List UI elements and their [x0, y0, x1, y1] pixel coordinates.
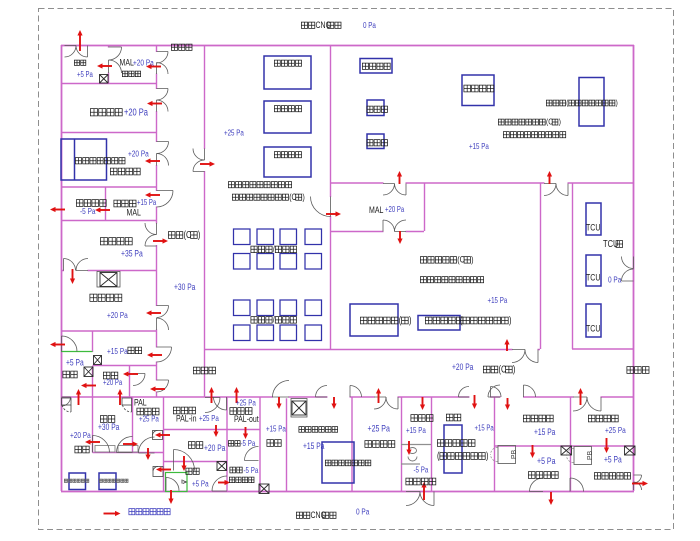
storage tank r253.5 c233.5	[234, 254, 251, 270]
wire TCU left wall	[572, 183, 574, 349]
svg-text:+20 Pa: +20 Pa	[107, 310, 128, 320]
arrow chromatography door up	[547, 171, 552, 184]
weighing hood divider	[74, 139, 76, 180]
svg-text:): )	[303, 192, 306, 202]
label TCU 2	[586, 273, 600, 283]
label outer CNC corridor top	[301, 20, 341, 30]
door chromatography right	[556, 184, 568, 196]
arrow yigeng2 exit down	[168, 490, 173, 504]
label raw product out	[594, 473, 630, 480]
label waste2	[411, 415, 433, 422]
door MAL bottom left	[383, 220, 395, 232]
label ergeng2	[188, 442, 202, 449]
label waste out -5Pa	[80, 206, 96, 216]
label waiqing +5Pa	[537, 456, 556, 466]
pass box tuogeng bottom	[259, 484, 269, 494]
wire TCU bottom	[572, 348, 634, 350]
wire corridor top	[204, 349, 540, 351]
label tuigeng -5Pa	[244, 465, 260, 475]
svg-text:+25 Pa: +25 Pa	[236, 397, 257, 407]
pass box yigeng	[84, 367, 93, 377]
label PAL +25Pa	[139, 413, 160, 423]
arrow corridor to weighing	[145, 158, 160, 163]
label fuya-geliqi2	[437, 440, 475, 447]
label waste2 +15Pa	[406, 425, 427, 435]
equipment negative-pressure open weighing hood	[61, 139, 107, 180]
svg-text:-5 Pa: -5 Pa	[244, 465, 260, 475]
equipment chromatography system	[360, 59, 392, 74]
door corridor-staging2 left	[488, 385, 500, 397]
door jieju corridor	[157, 347, 172, 362]
storage tank r229 c257	[257, 229, 274, 245]
door utensil wash upper	[157, 306, 169, 318]
svg-text:): )	[616, 98, 619, 108]
pass box buffer/MAL	[100, 75, 109, 84]
wire feiqiwu/chengliang divider	[431, 397, 433, 491]
wire zhengyi right wall	[132, 397, 134, 453]
svg-text:+25 Pa: +25 Pa	[368, 424, 391, 434]
storage tank r300 c280	[280, 300, 297, 316]
pass box material out	[561, 446, 572, 455]
label xiyi +20Pa	[70, 430, 91, 440]
arrow corridor to ergeng vest	[150, 386, 165, 391]
arrow corridor up 1	[209, 387, 214, 403]
wire cunfang/feiqiwu divider	[401, 397, 403, 491]
label utensil storage	[100, 238, 132, 245]
label yigeng2	[186, 468, 199, 474]
wire building top	[61, 45, 634, 47]
label waste MAL	[127, 208, 142, 218]
svg-text:+15 Pa: +15 Pa	[137, 199, 156, 207]
door utensil storage upper	[145, 223, 157, 235]
equipment liquid-prep system 1	[264, 56, 311, 89]
storage tank r325 c257	[257, 325, 274, 341]
door TCU room upper	[622, 257, 634, 269]
door corridor-weighing upper	[157, 142, 169, 154]
label corridor C upper	[168, 229, 200, 240]
svg-text:(: (	[460, 314, 463, 325]
svg-text:(: (	[437, 450, 440, 461]
label utensil storage2	[365, 441, 395, 448]
svg-text:PAL-out: PAL-out	[234, 414, 259, 424]
label peiye system 1	[274, 60, 301, 66]
door corridor-weighing lower	[157, 154, 169, 166]
hatch yigeng2-xiyi	[153, 466, 163, 476]
svg-text:0 Pa: 0 Pa	[608, 275, 622, 285]
wire chromatography bottom	[330, 182, 634, 184]
svg-text:+15 Pa: +15 Pa	[475, 425, 494, 433]
label jinlin -5Pa	[241, 438, 257, 448]
wire chengliang/zancun divider	[494, 397, 496, 491]
arrow utensil storage to corridor	[153, 238, 168, 243]
storage tank r325 c233.5	[234, 325, 251, 341]
svg-text:+15 Pa: +15 Pa	[303, 441, 325, 451]
arrow raw product out	[632, 481, 648, 486]
door corridor-peiye upper	[193, 149, 205, 161]
wire jinlin right wall	[259, 397, 261, 491]
label washer tiny 1	[64, 479, 88, 482]
svg-text:): )	[559, 117, 562, 127]
svg-text:+20 Pa: +20 Pa	[128, 149, 149, 159]
door jinlin	[245, 447, 259, 461]
arrow yigeng2 hatch left	[156, 467, 171, 472]
svg-text:PB: PB	[511, 450, 518, 460]
label sterilizer room	[299, 427, 338, 433]
hatch ergeng small door	[122, 398, 132, 412]
label material staging	[90, 109, 122, 116]
label fuya-geliqi	[425, 317, 463, 324]
label zhengyi +30Pa	[98, 422, 120, 432]
svg-text:+5 Pa: +5 Pa	[66, 358, 84, 368]
storage tank r300 c233.5	[234, 300, 251, 316]
svg-text:+5 Pa: +5 Pa	[192, 479, 209, 489]
door corridor-rawliquid left	[573, 397, 587, 411]
wire below utensil storage	[61, 270, 156, 272]
wire building right	[633, 45, 635, 491]
label xiaofenzi-chengliang	[437, 450, 489, 461]
label MAL2 +20Pa	[385, 206, 404, 214]
door utensil storage-wash left	[64, 259, 76, 271]
svg-text:+5 Pa: +5 Pa	[604, 455, 622, 465]
wire peiye/cengxi divider	[330, 45, 332, 349]
label waste	[114, 200, 136, 207]
label toxic risk 2	[420, 277, 483, 283]
label washer tiny 2	[99, 479, 128, 482]
svg-text:(: (	[566, 98, 569, 108]
label MAL1 +20Pa	[133, 58, 154, 68]
arrow yigeng arrow	[81, 383, 96, 388]
door coupling room right	[525, 350, 538, 363]
wire zancun/yuanye divider	[570, 397, 572, 491]
door utensil wash lower	[157, 318, 169, 330]
label sterilizer +15Pa	[303, 441, 325, 451]
door gaps	[155, 52, 158, 74]
green door leaf mark	[182, 480, 186, 484]
label zhengyi	[100, 416, 114, 423]
wire zhengyi left wall	[92, 397, 94, 453]
equipment double-door sterilizer	[322, 442, 354, 483]
svg-text:MAL: MAL	[369, 205, 384, 215]
arrow corridor to sterilizer	[331, 397, 336, 409]
label outer CNC corridor bottom	[296, 510, 336, 520]
wire qingxi/cunfang divider	[351, 397, 353, 491]
svg-text:+30 Pa: +30 Pa	[174, 282, 196, 292]
wire yuanye divider	[570, 445, 634, 447]
arrow ergeng up	[117, 389, 122, 405]
label coupling room	[420, 254, 473, 265]
svg-text:+15 Pa: +15 Pa	[406, 425, 427, 435]
wire green door line	[61, 351, 93, 353]
svg-text:(C: (C	[499, 363, 507, 374]
label jinlin	[228, 441, 240, 447]
PB pass box material clean	[491, 446, 519, 464]
label waste2 out	[406, 478, 436, 485]
label corridor C lower	[483, 363, 515, 374]
arrow corridor to staging2	[505, 398, 510, 410]
arrow corridor up 2	[234, 387, 239, 403]
door corridor-peiye lower	[193, 160, 205, 172]
door coupling room left	[512, 350, 525, 363]
door corridor-staging upper	[157, 89, 169, 101]
label tuiqisuo +25Pa	[236, 397, 257, 407]
label waste out	[76, 200, 106, 207]
arrow staging to waiqing	[530, 445, 535, 458]
label peiye system 2	[274, 106, 301, 112]
equipment chromatography column 2	[367, 134, 384, 149]
equipment negative pressure isolator (weighing)	[444, 425, 462, 473]
pass box jieju upper	[94, 356, 102, 365]
svg-text:PB: PB	[587, 451, 594, 461]
door MAL top right	[395, 184, 407, 196]
svg-text:): )	[513, 363, 516, 374]
wire below waste row	[61, 220, 156, 222]
wire above yigeng2	[163, 461, 227, 463]
wire building left	[61, 45, 63, 491]
door laundry corner	[62, 397, 71, 406]
label material weighing	[110, 168, 140, 175]
arrow waste2 inner arrow	[406, 441, 411, 455]
label xiaofenzi-rongjie	[460, 314, 512, 325]
equipment TCU 1	[586, 203, 601, 235]
equipment coupling reactor	[350, 304, 398, 336]
storage tank r253.5 c280	[280, 254, 297, 270]
door waste-out bottom right	[420, 492, 434, 506]
arrow rawliquid up	[578, 388, 583, 405]
label waste +15Pa	[137, 199, 156, 207]
PB pass box raw liquid	[567, 447, 595, 465]
arrow PAL down	[145, 448, 150, 460]
wire below weighing	[61, 186, 156, 188]
label chromatography system	[362, 63, 390, 69]
label ergeng	[103, 372, 117, 379]
storage tank r229 c305	[305, 229, 322, 245]
arrow waste inner arrow	[95, 207, 110, 212]
door corridor-sterilizer room left	[316, 386, 328, 398]
svg-text:+20 Pa: +20 Pa	[204, 443, 226, 453]
arrow corridor to waste2	[420, 397, 425, 410]
svg-text:-5 Pa: -5 Pa	[414, 464, 430, 474]
door PAL-yigeng	[139, 437, 155, 453]
label waste2 -5Pa	[414, 464, 430, 474]
label cunfang2 +25Pa	[368, 424, 391, 434]
label utensil +35Pa	[121, 248, 143, 258]
wire MAL right wall	[424, 183, 426, 231]
door corridor-weighing room right	[491, 387, 502, 398]
label ergeng +20Pa	[103, 379, 122, 387]
label TCU 1	[586, 223, 600, 233]
wire building bottom	[61, 491, 634, 493]
equipment liquid-prep system 3	[264, 147, 311, 177]
label xiyi	[75, 446, 89, 453]
storage tank r300 c305	[305, 300, 322, 316]
equipment washer 1	[69, 473, 86, 490]
svg-text:+15 Pa: +15 Pa	[107, 346, 128, 356]
svg-text:): )	[409, 314, 412, 325]
label peiye system 3	[274, 152, 301, 158]
wire qingxi-miejun left	[286, 397, 288, 491]
svg-text:+15 Pa: +15 Pa	[266, 423, 287, 433]
door MAL airlock upper	[109, 47, 122, 60]
label column 2	[367, 140, 388, 146]
arrow MAL2 up	[397, 171, 402, 184]
door MAL airlock lower	[109, 60, 122, 73]
arrow zhengyi left	[85, 439, 100, 444]
label weighing +20Pa	[128, 149, 149, 159]
arrow ergeng2 to yigeng2	[181, 456, 186, 471]
label MAL2	[369, 205, 384, 215]
storage tank r229 c280	[280, 229, 297, 245]
equipment liquid-prep system 2	[264, 101, 311, 133]
pass box raw liquid	[625, 446, 636, 455]
pass box utensil wash rim	[97, 272, 120, 288]
label songqisuo	[173, 407, 195, 414]
label chengliang	[446, 414, 460, 421]
arrow corridor to jieju2	[276, 397, 281, 409]
svg-text:+20 Pa: +20 Pa	[70, 430, 91, 440]
equipment chromatography column 1	[367, 100, 384, 116]
door jieju left	[62, 336, 78, 352]
door tuigeng	[212, 476, 227, 491]
wire yigeng right wall	[92, 366, 94, 397]
label jieju +15Pa	[107, 346, 128, 356]
door corridor-wasteMAL	[157, 191, 174, 208]
door material-clean bottom right	[570, 478, 584, 492]
door buffer top left	[65, 46, 77, 58]
equipment negative pressure isolator (dissolve)	[418, 316, 460, 331]
door corridor-sterilizer room right	[350, 386, 362, 398]
label yigeng	[63, 371, 77, 378]
pass box utensil wash	[100, 273, 117, 287]
arrow tuiqisuo to jinlin	[243, 427, 248, 439]
storage tank r325 c280	[280, 325, 297, 341]
svg-text:MAL: MAL	[127, 208, 142, 218]
door material-clean bottom left	[530, 478, 544, 492]
label PAL-in	[176, 414, 197, 424]
wire ergeng right wall	[129, 365, 131, 397]
door waste-out bottom left	[406, 492, 420, 506]
door MAL top left	[383, 184, 395, 196]
door raw product out upper	[634, 475, 642, 483]
label ergeng2 +20Pa	[204, 443, 226, 453]
storage tank r253.5 c257	[257, 254, 274, 270]
waste room sink	[408, 448, 417, 462]
label jieju2 +15Pa	[266, 423, 287, 433]
door peiye-MAL	[311, 197, 331, 217]
label staging +20Pa	[124, 106, 148, 117]
label material waiqing	[528, 472, 558, 479]
equipment TCU 3	[586, 304, 601, 337]
storage tank r229 c233.5	[234, 229, 251, 245]
arrow waste out up	[421, 482, 426, 500]
svg-text:PAL: PAL	[134, 398, 147, 408]
label tuigeng	[230, 467, 242, 473]
label peiye +25Pa	[224, 127, 245, 137]
label 0 Pa top	[363, 20, 377, 30]
arrow corridor to utensil wash	[146, 310, 161, 315]
arrow songqisuo to ergeng2	[213, 425, 218, 437]
label TCU room	[603, 238, 623, 249]
label double door sterilizer	[325, 460, 370, 466]
wire gowning mid wall	[61, 396, 634, 398]
label TCU 3	[586, 324, 600, 334]
door tuiqisuo	[214, 397, 227, 410]
hatch laundry small door	[62, 398, 72, 412]
door raw product out lower	[634, 482, 642, 490]
wire MAL bottom	[330, 231, 424, 233]
arrow zhengyi right	[123, 441, 138, 446]
label corridor +30Pa	[174, 282, 196, 292]
door MAL bottom right	[395, 220, 407, 232]
pass box sterilizer room rim	[291, 399, 307, 418]
svg-text:+5 Pa: +5 Pa	[77, 71, 93, 79]
door songqisuo	[205, 398, 220, 413]
svg-text:TCU: TCU	[586, 273, 600, 283]
label neg-pressure hood	[75, 158, 125, 164]
svg-text:PAL-in: PAL-in	[176, 414, 197, 424]
svg-text:+35 Pa: +35 Pa	[121, 248, 143, 258]
door utensil storage-wash right	[76, 259, 88, 271]
label coupling +15Pa	[488, 295, 509, 305]
label wash +20Pa	[107, 310, 128, 320]
door TCU room lower	[622, 269, 634, 281]
label safety door top	[171, 44, 192, 50]
arrow ergeng to yigeng	[123, 371, 138, 376]
arrow yigeng2 to tuigeng	[218, 480, 230, 485]
label jieju2	[267, 440, 281, 447]
svg-text:+15 Pa: +15 Pa	[488, 295, 509, 305]
door zhengyi right	[117, 437, 133, 453]
arrow songqisuo hatch left	[155, 432, 170, 437]
svg-text:+25 Pa: +25 Pa	[199, 413, 220, 423]
label ren-qisuo	[137, 408, 159, 415]
label purification room	[498, 117, 561, 127]
label staging2 +15Pa	[534, 427, 556, 437]
svg-text:TCU: TCU	[586, 324, 600, 334]
label tuiqisuo	[230, 408, 252, 415]
svg-text:+20 Pa: +20 Pa	[124, 106, 148, 117]
label tank group 2	[251, 314, 297, 325]
door corridor-utensil left	[374, 397, 386, 409]
wire corridor left wall	[156, 45, 158, 397]
label yigeng2 +5Pa	[192, 479, 209, 489]
svg-text:0 Pa: 0 Pa	[363, 20, 377, 30]
label non-toxic risk	[228, 182, 291, 188]
svg-text:+25 Pa: +25 Pa	[139, 413, 160, 423]
storage tank r325 c305	[305, 325, 322, 341]
wire buffer/MAL divider	[108, 45, 110, 83]
label jieju	[128, 347, 142, 354]
arrow corridor to peiye	[200, 161, 215, 166]
label yigeng +5Pa	[66, 358, 84, 368]
door utensil storage lower	[145, 235, 157, 247]
storage tank r253.5 c305	[305, 254, 322, 270]
label MAL1	[120, 58, 135, 68]
svg-text:+25 Pa: +25 Pa	[224, 127, 245, 137]
svg-text:+15 Pa: +15 Pa	[469, 141, 490, 151]
label PALin +25Pa	[199, 413, 220, 423]
equipment TCU 2	[586, 255, 601, 286]
label legend	[129, 509, 170, 515]
wire zancun/waiqing divider	[494, 445, 570, 447]
equipment washer 2	[99, 473, 116, 490]
wire ergeng2 right wall	[226, 397, 228, 491]
wire waste divider	[105, 187, 107, 220]
svg-text:): )	[509, 314, 512, 325]
arrow peiye to MAL2	[326, 211, 341, 216]
label coupling reactor	[360, 314, 411, 325]
label column 1	[367, 106, 388, 112]
wire below utensil wash	[61, 330, 156, 332]
